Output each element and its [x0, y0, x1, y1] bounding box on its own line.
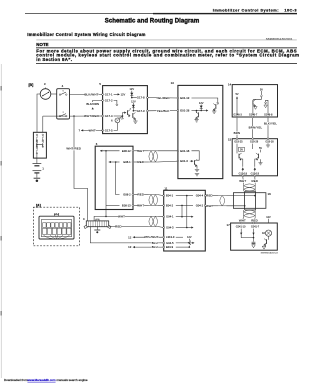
svg-text:[B]: [B]	[29, 83, 34, 87]
svg-text:RED: RED	[206, 194, 213, 198]
node G17-8	[132, 96, 149, 100]
svg-text:G241-10: G241-10	[236, 226, 246, 229]
wire BLK/ORN stub to G17-2	[86, 100, 102, 109]
internal rails (module 11)	[182, 196, 187, 228]
wire YEL/BLK G17-3 to E01-28	[148, 109, 178, 113]
12V feed for indicator lamp	[266, 216, 271, 230]
svg-text:17: 17	[226, 223, 230, 227]
svg-text:in Section 9A”.: in Section 9A”.	[36, 57, 72, 62]
5V and transistor (BCM right)	[253, 144, 263, 167]
node G04-1	[163, 215, 194, 219]
transistor Q and ground (ECM lower-left)	[194, 111, 198, 123]
wire switch 3 to ignition switch 4	[51, 93, 57, 95]
12V rail and diode (meter, lower)	[131, 100, 136, 112]
node G04-2	[182, 203, 206, 207]
svg-text:BRN: BRN	[234, 131, 241, 135]
ground (ECM output)	[195, 169, 199, 176]
node G04-3	[163, 226, 194, 230]
svg-text:12: 12	[128, 235, 132, 239]
svg-text:2: 2	[63, 112, 64, 114]
wire BLU shield to G04-5	[90, 227, 163, 245]
wire RED E08-1 to E01-3 (twisted)	[134, 149, 178, 164]
label [B]	[29, 83, 34, 87]
svg-text:WHT/RED: WHT/RED	[84, 114, 99, 118]
svg-text:BLK/YEL: BLK/YEL	[264, 122, 277, 126]
svg-text:BLK/ORN: BLK/ORN	[86, 102, 99, 106]
12V rail and diode (ECM)	[199, 101, 204, 111]
svg-text:WHT: WHT	[239, 218, 246, 222]
svg-text:S6RW0DA032-02: S6RW0DA032-02	[261, 251, 279, 254]
shield connector 9	[83, 217, 111, 228]
immobilizer coil antenna / key cylinder 16	[233, 191, 271, 210]
scan edge artifacts	[1, 64, 2, 378]
node G04-5	[163, 241, 195, 245]
ground (battery)	[34, 178, 41, 182]
node G146-8	[264, 114, 273, 118]
svg-text:12V: 12V	[131, 100, 136, 104]
svg-text:PPL/WHT: PPL/WHT	[144, 235, 158, 239]
5V supply and transistor (module 14 mid)	[253, 88, 263, 114]
wire RED shield connector to G04-3 (twisted)	[94, 210, 164, 229]
svg-text:WHT/RED: WHT/RED	[66, 147, 81, 151]
wire BLK/WHT ignition to G17-1	[70, 92, 103, 96]
svg-text:RED: RED	[251, 179, 258, 183]
keyless start control module 11	[164, 186, 206, 251]
svg-text:G19-25: G19-25	[234, 141, 243, 144]
svg-text:14: 14	[228, 83, 232, 87]
internal wiring (module 8)	[106, 151, 120, 210]
ignition switch 3 (circle component)	[40, 82, 51, 99]
svg-text:G04-2: G04-2	[196, 203, 204, 207]
svg-text:G17-8: G17-8	[137, 96, 145, 100]
svg-text:12V: 12V	[121, 93, 126, 97]
svg-text:E08-1: E08-1	[123, 160, 131, 164]
node E08-13	[122, 203, 134, 207]
transistor Q (ECM right)	[212, 103, 219, 114]
svg-text:WHT: WHT	[206, 204, 213, 208]
svg-text:16: 16	[268, 192, 272, 196]
svg-text:5V: 5V	[259, 147, 262, 150]
wire BRN G146-3 to G19-25	[234, 118, 241, 138]
node G19-18	[239, 167, 248, 176]
svg-text:G19-29: G19-29	[250, 141, 259, 144]
svg-text:15: 15	[228, 137, 232, 141]
immobilizer indicator lamp 18	[262, 230, 272, 236]
node G17-5	[102, 123, 118, 133]
svg-text:E08-12: E08-12	[122, 149, 131, 153]
svg-text:12V: 12V	[129, 87, 134, 91]
combination meter 5	[99, 82, 147, 134]
ECM 10	[171, 81, 223, 179]
svg-text:Downloaded from: Downloaded from	[4, 378, 28, 382]
wire RED antenna to G241-7 (twisted)	[239, 210, 258, 223]
svg-text:Immobilizer Control System Wir: Immobilizer Control System Wiring Circui…	[27, 32, 146, 37]
svg-text:11: 11	[164, 186, 167, 190]
svg-text:10: 10	[171, 81, 175, 85]
BCM 15	[228, 137, 278, 175]
svg-text:YEL/RED: YEL/RED	[156, 96, 170, 100]
node E01-13	[177, 96, 218, 103]
svg-text:BRN/YEL: BRN/YEL	[249, 126, 263, 130]
svg-text:RED: RED	[137, 193, 144, 197]
node E01-3 and output transistor	[177, 159, 197, 169]
svg-text:E04-1: E04-1	[166, 194, 174, 198]
node E08-1	[109, 160, 134, 164]
diagram code	[261, 251, 279, 254]
svg-text:G04-3: G04-3	[166, 226, 174, 230]
battery 1	[33, 158, 45, 178]
node G17-4 and driver transistor	[102, 108, 131, 118]
footer	[0, 376, 300, 388]
svg-text:YEL/BLK: YEL/BLK	[157, 109, 170, 113]
svg-text:E08-13: E08-13	[122, 203, 131, 207]
12V rail and diode (meter, upper)	[129, 87, 134, 98]
wire WHT E08-13 to E04-2 (twisted)	[134, 193, 164, 208]
svg-text:G17-5: G17-5	[105, 128, 113, 132]
connector inset [A]	[33, 203, 79, 245]
combination meter / lamp unit 17	[226, 223, 277, 250]
svg-text:NOTE: NOTE	[36, 42, 48, 47]
svg-text:[A]: [A]	[36, 203, 41, 207]
svg-text:G17-3: G17-3	[137, 109, 145, 113]
svg-text:WHT: WHT	[137, 203, 144, 207]
node L313-3 with 12V pull-up resistor	[163, 235, 192, 248]
node G146-3	[233, 114, 242, 118]
svg-text:E01-13: E01-13	[180, 96, 189, 100]
wire WHT off-page 7 to G17-5	[78, 128, 102, 132]
svg-text:WHT: WHT	[239, 179, 246, 183]
immobilizer indicator LED 6	[111, 116, 124, 123]
svg-text:RED: RED	[137, 160, 144, 164]
node G19-25	[234, 138, 243, 144]
svg-text:G04-5: G04-5	[166, 241, 174, 245]
wire RED G19-19 to antenna (twisted)	[239, 177, 258, 192]
svg-text:RED: RED	[251, 218, 258, 222]
svg-text:L313-3: L313-3	[166, 235, 175, 239]
node E01-18	[177, 149, 199, 160]
svg-text:G19-30: G19-30	[265, 141, 274, 144]
svg-text:G17-4: G17-4	[105, 114, 113, 118]
svg-text:12V: 12V	[199, 101, 204, 105]
wire YEL/RED G17-8 to E01-13	[148, 96, 178, 100]
wire BRN/YEL G146-7 to G19-29	[249, 118, 263, 138]
ground (BCM right input)	[266, 143, 270, 147]
svg-text:G17-1: G17-1	[105, 92, 113, 96]
NOTE block	[36, 40, 300, 64]
svg-text:E01-28: E01-28	[180, 109, 189, 113]
node E04-9	[163, 245, 190, 249]
svg-text:WHT: WHT	[89, 128, 96, 132]
wire WHT G04-2 to coil antenna (twisted)	[206, 194, 256, 208]
node G241-10	[236, 222, 254, 238]
node E08-12	[100, 149, 134, 153]
svg-text:13: 13	[128, 245, 132, 249]
svg-text:Schematic and Routing Diagram: Schematic and Routing Diagram	[105, 18, 200, 24]
node G17-1	[102, 92, 126, 96]
svg-text:BLU: BLU	[152, 245, 158, 249]
svg-text:WHT: WHT	[137, 149, 144, 153]
svg-text:G241-7: G241-7	[251, 226, 260, 229]
node G146-7	[249, 114, 258, 118]
svg-text:Immobilizer Control System:: Immobilizer Control System:	[213, 8, 279, 13]
svg-text:G146-3: G146-3	[233, 114, 242, 117]
svg-text:E01-18: E01-18	[180, 149, 189, 153]
page header	[25, 8, 297, 15]
svg-text:G04-4: G04-4	[196, 194, 204, 198]
node E04-1	[163, 194, 188, 198]
transistor Q (meter right)	[133, 113, 138, 124]
svg-text:WHT: WHT	[118, 214, 125, 218]
fuse box 2	[33, 132, 46, 158]
svg-text:E08-2: E08-2	[123, 193, 131, 197]
node G19-29	[250, 138, 259, 144]
input hook (module 14 right)	[264, 100, 268, 114]
wire BLU off-page 13 to E04-9	[128, 245, 164, 249]
svg-text:E01-3: E01-3	[180, 159, 188, 163]
svg-text:control module, keyless start: control module, keyless start control mo…	[36, 53, 299, 58]
section subtitle	[27, 32, 292, 41]
wire BLK/YEL G146-8 to G19-30	[264, 118, 278, 138]
wire WHT/RED ignition to G17-4	[43, 114, 103, 132]
svg-text:E04-2: E04-2	[166, 203, 174, 207]
svg-text:S6RW0DA302001: S6RW0DA302001	[266, 37, 293, 41]
wire PPL/WHT off-page 12 to L313-3	[128, 235, 164, 239]
svg-text:G04-1: G04-1	[166, 215, 174, 219]
ground (shield)	[94, 227, 100, 234]
svg-text:RED: RED	[115, 224, 122, 228]
svg-text:10C-3: 10C-3	[284, 8, 297, 13]
ignition switch 4	[57, 84, 70, 119]
svg-text:5V: 5V	[235, 93, 238, 96]
node G04-4	[187, 194, 206, 198]
node G17-2	[102, 98, 118, 106]
svg-text:www.Manualslib.com: www.Manualslib.com	[28, 378, 57, 382]
svg-text:manuals search engine: manuals search engine	[57, 378, 88, 382]
node G241-7 and ground	[251, 222, 260, 248]
transistor Q (lamp driver) and ground	[262, 236, 268, 249]
wire WHT/RED junction down to shield connector	[66, 116, 87, 221]
svg-text:G17-2: G17-2	[105, 98, 113, 102]
keyless start control module 14	[228, 83, 278, 117]
svg-text:BLK/WHT: BLK/WHT	[84, 92, 98, 96]
wire battery feed to switch 3	[37, 94, 40, 132]
node E01-28	[177, 109, 208, 113]
node E04-2	[163, 203, 183, 207]
node G17-3	[133, 109, 148, 113]
svg-text:5V: 5V	[240, 149, 243, 152]
immobilizer control module 8	[95, 142, 133, 209]
5V supply (module 14 left)	[235, 93, 238, 114]
node G19-19	[251, 167, 260, 176]
node E08-2	[123, 193, 133, 197]
svg-text:5: 5	[63, 91, 64, 93]
page title	[105, 18, 200, 24]
5V and transistor (BCM left)	[237, 144, 245, 167]
node G19-30	[265, 138, 274, 144]
svg-text:E04-9: E04-9	[166, 245, 174, 249]
